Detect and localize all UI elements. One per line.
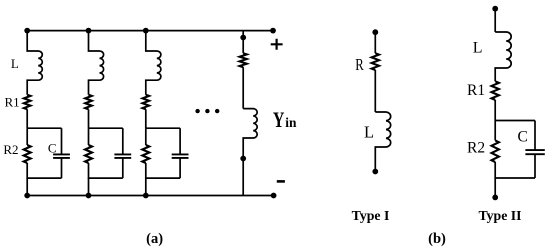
svg-text:R1: R1 xyxy=(467,82,485,99)
inductor L type2 xyxy=(495,32,511,81)
svg-text:Y: Y xyxy=(273,107,285,132)
svg-text:L: L xyxy=(473,39,483,56)
inductor L branch1 xyxy=(27,31,42,95)
inductor branch3 xyxy=(146,31,161,95)
wire xyxy=(145,178,147,195)
node type1 bottom xyxy=(372,169,378,175)
node branch2 top xyxy=(86,28,92,34)
minus sign xyxy=(277,180,285,183)
inductor branch2 xyxy=(89,31,104,95)
resistor R type1 xyxy=(372,53,379,70)
resistor input branch xyxy=(240,53,247,67)
capacitor branch3 xyxy=(172,154,189,158)
plus sign xyxy=(271,39,283,50)
wire xyxy=(242,67,244,108)
svg-text:R: R xyxy=(355,55,364,74)
resistor branch2 xyxy=(85,95,92,110)
wire xyxy=(122,158,124,178)
resistor R1 type2 xyxy=(492,81,499,100)
resistor branch2 shunt xyxy=(85,145,92,163)
wire xyxy=(89,163,123,178)
node branch1 bottom xyxy=(24,193,30,199)
node + terminal xyxy=(270,28,276,34)
resistor branch3 shunt xyxy=(142,145,149,163)
svg-text:in: in xyxy=(285,116,296,131)
svg-text:Type I: Type I xyxy=(352,208,390,223)
node branch2 bottom xyxy=(86,193,92,199)
wire xyxy=(494,178,496,197)
wire xyxy=(61,128,63,154)
svg-text:L: L xyxy=(11,56,19,71)
svg-text:(a): (a) xyxy=(146,231,163,247)
wire xyxy=(145,128,147,145)
ellipsis dots xyxy=(195,109,219,113)
resistor R2 type2 xyxy=(492,140,499,162)
svg-text:L: L xyxy=(364,123,374,142)
wire xyxy=(88,109,90,128)
wire xyxy=(494,9,496,32)
node branch1 top xyxy=(24,28,30,34)
wire xyxy=(26,128,28,145)
capacitor C type2 xyxy=(525,150,544,154)
svg-text:C: C xyxy=(48,141,57,156)
node - terminal xyxy=(271,193,277,199)
capacitor branch2 xyxy=(114,154,131,158)
svg-text:R1: R1 xyxy=(5,94,20,109)
node branch3 bottom xyxy=(143,193,149,199)
wire xyxy=(242,31,244,54)
wire xyxy=(374,32,376,53)
resistor R1 branch1 xyxy=(24,95,31,110)
node type2 top xyxy=(492,6,498,12)
wire xyxy=(534,121,536,151)
wire xyxy=(27,163,61,178)
svg-text:R2: R2 xyxy=(3,142,18,157)
node branch3 top xyxy=(143,28,149,34)
capacitor C branch1 xyxy=(53,154,70,158)
wire xyxy=(26,178,28,195)
node port top xyxy=(240,35,246,41)
wire xyxy=(495,162,535,178)
wire xyxy=(374,70,376,112)
inductor L type1 xyxy=(375,112,390,172)
wire xyxy=(88,178,90,195)
wire bottom bus xyxy=(27,195,273,197)
wire parallel top rail type2 xyxy=(495,120,535,122)
wire xyxy=(122,128,124,154)
wire xyxy=(88,128,90,145)
wire xyxy=(179,128,181,154)
svg-text:(b): (b) xyxy=(428,231,446,247)
wire xyxy=(146,163,180,178)
wire xyxy=(494,121,496,141)
wire xyxy=(179,158,181,178)
node type1 top xyxy=(372,29,378,35)
svg-text:C: C xyxy=(518,129,528,146)
node port bottom xyxy=(240,156,246,162)
resistor branch3 xyxy=(143,95,150,110)
node type2 bottom xyxy=(492,195,498,201)
wire xyxy=(494,100,496,121)
wire parallel top rail branch3 xyxy=(146,127,180,129)
wire parallel top rail branch1 xyxy=(27,127,61,129)
wire parallel top rail branch2 xyxy=(89,127,123,129)
svg-text:Type II: Type II xyxy=(478,208,521,223)
svg-text:R2: R2 xyxy=(467,139,485,156)
wire xyxy=(145,109,147,128)
wire xyxy=(26,109,28,128)
wire xyxy=(534,154,536,178)
resistor R2 branch1 xyxy=(24,145,31,163)
wire xyxy=(61,158,63,178)
wire top bus xyxy=(27,30,273,32)
inductor input branch xyxy=(243,109,257,196)
